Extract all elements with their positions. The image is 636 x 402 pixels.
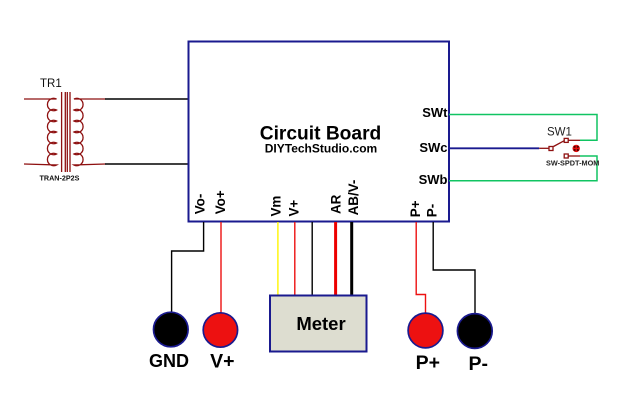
- svg-text:AR: AR: [329, 194, 344, 214]
- svg-text:P-: P-: [425, 204, 440, 217]
- switch SW1 momentary dot: [573, 145, 580, 152]
- svg-text:Vo-: Vo-: [193, 194, 208, 215]
- wire Vo- to GND terminal: [172, 222, 204, 314]
- svg-text:AB/V-: AB/V-: [346, 180, 361, 216]
- svg-text:DIYTechStudio.com: DIYTechStudio.com: [265, 142, 377, 156]
- wire AB/V- to meter (thick black): [350, 222, 353, 295]
- wire: TR1 secondary bottom to board: [105, 163, 188, 165]
- terminal P+: [408, 313, 443, 348]
- wire SWc to switch (blue): [449, 147, 539, 149]
- svg-text:SW1: SW1: [547, 127, 572, 139]
- svg-text:Meter: Meter: [296, 313, 345, 334]
- svg-text:P-: P-: [469, 353, 489, 375]
- wire: TR1 secondary top to board: [105, 98, 188, 100]
- circuit board U1: [189, 42, 450, 222]
- transformer TR1: [24, 92, 106, 172]
- wire Vm to meter: [277, 222, 279, 295]
- wire Vo+ to V+ terminal: [220, 222, 222, 314]
- terminal GND: [154, 312, 189, 347]
- svg-text:SWt: SWt: [422, 105, 448, 120]
- meter box: [270, 296, 367, 352]
- wire SWt to switch (green): [449, 115, 597, 141]
- svg-text:TRAN-2P2S: TRAN-2P2S: [40, 174, 80, 183]
- svg-text:P+: P+: [408, 200, 423, 217]
- wire V+ to meter: [294, 222, 296, 295]
- terminal P-: [457, 314, 492, 349]
- wire P+ to P+ terminal: [416, 222, 425, 314]
- svg-text:SW-SPDT-MOM: SW-SPDT-MOM: [546, 159, 599, 168]
- terminal V+: [203, 313, 237, 347]
- svg-text:P+: P+: [416, 352, 440, 374]
- svg-text:V+: V+: [286, 200, 301, 217]
- svg-text:SWc: SWc: [419, 140, 447, 155]
- svg-text:SWb: SWb: [419, 172, 448, 187]
- svg-text:Vo+: Vo+: [213, 190, 228, 214]
- svg-text:Vm: Vm: [269, 196, 284, 217]
- wire black to meter: [311, 222, 313, 295]
- switch SW1: [539, 138, 580, 158]
- wire SWb to switch (green): [449, 156, 597, 181]
- svg-text:V+: V+: [210, 351, 234, 373]
- wire P- to P- terminal: [433, 222, 475, 315]
- svg-text:GND: GND: [149, 351, 189, 371]
- svg-text:TR1: TR1: [40, 78, 62, 90]
- wire AR to meter (thick red): [334, 222, 337, 295]
